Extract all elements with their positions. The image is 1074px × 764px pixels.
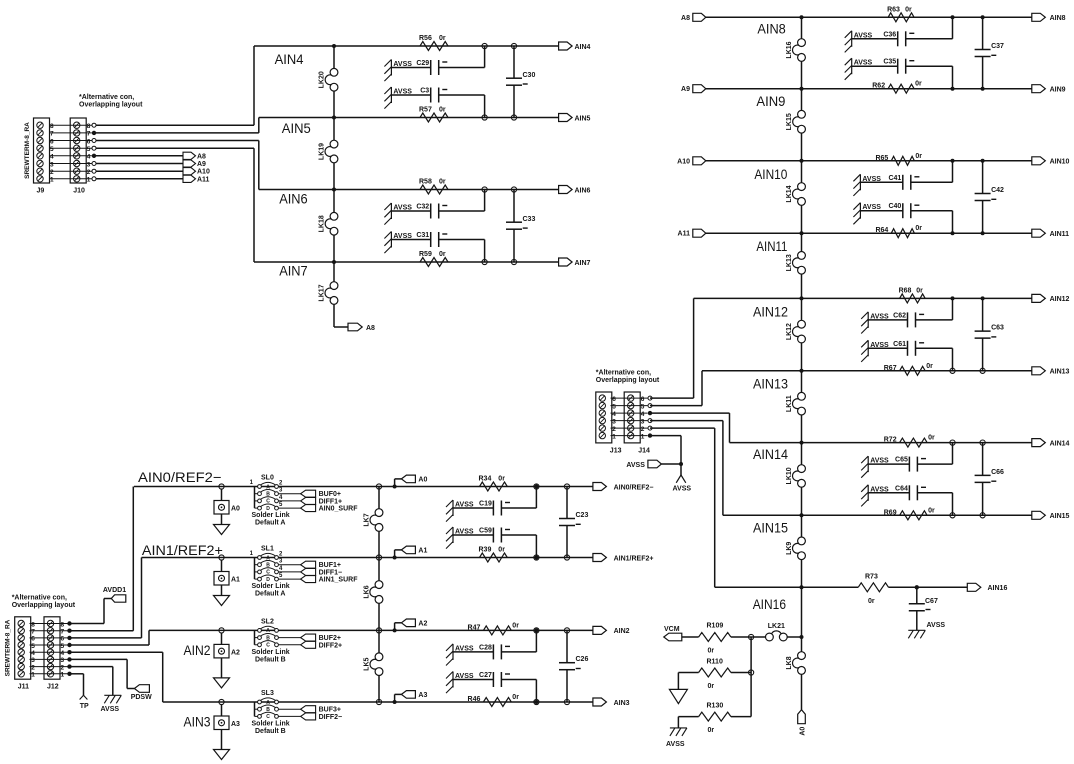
- svg-text:8: 8: [61, 621, 65, 628]
- svg-text:Default B: Default B: [255, 656, 286, 663]
- svg-text:LK6: LK6: [364, 585, 371, 598]
- svg-text:AIN1/REF2+: AIN1/REF2+: [614, 555, 654, 562]
- svg-text:AIN10: AIN10: [754, 166, 787, 182]
- svg-text:1: 1: [61, 672, 65, 679]
- svg-text:A0: A0: [418, 477, 427, 484]
- svg-text:AIN11: AIN11: [1050, 231, 1070, 238]
- svg-text:A9: A9: [197, 161, 206, 168]
- svg-text:0r: 0r: [708, 727, 715, 734]
- svg-text:A8: A8: [681, 15, 690, 22]
- svg-text:AIN15: AIN15: [753, 520, 788, 536]
- svg-text:R57: R57: [419, 107, 432, 114]
- svg-text:Solder Link: Solder Link: [252, 720, 290, 727]
- svg-text:AIN16: AIN16: [988, 585, 1008, 592]
- svg-text:6: 6: [50, 138, 54, 145]
- svg-text:0r: 0r: [439, 107, 446, 114]
- svg-text:A2: A2: [418, 621, 427, 628]
- svg-text:6: 6: [31, 636, 35, 643]
- svg-text:0r: 0r: [439, 35, 446, 42]
- svg-text:6: 6: [612, 396, 616, 403]
- svg-text:LK8: LK8: [786, 656, 793, 669]
- svg-text:DIFF2+: DIFF2+: [319, 642, 343, 649]
- svg-text:C37: C37: [991, 43, 1004, 50]
- svg-text:J14: J14: [638, 447, 650, 454]
- svg-text:0r: 0r: [498, 547, 505, 554]
- svg-text:C30: C30: [523, 72, 536, 79]
- svg-text:C32: C32: [416, 204, 429, 211]
- svg-text:DIFF1+: DIFF1+: [319, 498, 343, 505]
- svg-text:A11: A11: [678, 231, 691, 238]
- svg-text:2: 2: [641, 426, 645, 433]
- svg-text:1: 1: [641, 433, 645, 440]
- svg-text:SL3: SL3: [261, 690, 274, 697]
- svg-text:SL0: SL0: [261, 475, 274, 482]
- svg-text:R46: R46: [468, 696, 481, 703]
- svg-text:J10: J10: [73, 188, 85, 195]
- svg-text:5: 5: [87, 146, 91, 153]
- svg-text:LK12: LK12: [786, 323, 793, 340]
- svg-text:1: 1: [612, 433, 616, 440]
- svg-text:0r: 0r: [439, 251, 446, 258]
- svg-text:AIN11: AIN11: [756, 238, 787, 254]
- svg-text:A9: A9: [681, 86, 690, 93]
- svg-text:Default A: Default A: [255, 591, 285, 598]
- svg-text:C42: C42: [991, 187, 1004, 194]
- svg-text:AVDD1: AVDD1: [103, 587, 126, 594]
- svg-text:R110: R110: [707, 659, 723, 666]
- svg-text:7: 7: [31, 629, 35, 636]
- svg-text:7: 7: [61, 629, 65, 636]
- svg-text:C19: C19: [479, 501, 492, 508]
- svg-text:0r: 0r: [868, 598, 875, 605]
- svg-text:C41: C41: [888, 175, 901, 182]
- svg-text:LK19: LK19: [319, 143, 326, 160]
- svg-text:1: 1: [87, 177, 91, 184]
- svg-text:A8: A8: [197, 153, 206, 160]
- svg-text:8: 8: [50, 123, 54, 130]
- svg-text:R64: R64: [875, 227, 888, 234]
- svg-text:0r: 0r: [708, 648, 715, 655]
- svg-text:3: 3: [61, 657, 65, 664]
- svg-text:AIN4: AIN4: [275, 51, 304, 67]
- svg-text:3: 3: [641, 418, 645, 425]
- svg-text:SREWTERM-8_RA: SREWTERM-8_RA: [24, 122, 31, 179]
- svg-text:3: 3: [612, 418, 616, 425]
- svg-text:BUF0+: BUF0+: [319, 491, 341, 498]
- svg-text:0r: 0r: [928, 435, 935, 442]
- svg-text:AIN6: AIN6: [279, 191, 308, 207]
- svg-text:C61: C61: [893, 341, 906, 348]
- svg-text:C62: C62: [893, 312, 906, 319]
- svg-text:AVSS: AVSS: [673, 486, 692, 493]
- svg-text:R59: R59: [419, 251, 432, 258]
- svg-text:4: 4: [61, 650, 65, 657]
- svg-text:1: 1: [50, 177, 54, 184]
- svg-text:3: 3: [31, 657, 35, 664]
- svg-text:AIN4: AIN4: [575, 44, 591, 51]
- svg-text:Overlapping layout: Overlapping layout: [596, 377, 660, 384]
- svg-text:AIN16: AIN16: [753, 596, 786, 612]
- svg-text:*Alternative con,: *Alternative con,: [596, 370, 651, 377]
- svg-text:R56: R56: [419, 35, 432, 42]
- svg-text:R62: R62: [872, 83, 885, 90]
- svg-text:R130: R130: [707, 703, 724, 710]
- svg-text:5: 5: [61, 643, 65, 650]
- svg-text:LK14: LK14: [786, 185, 793, 202]
- svg-text:A3: A3: [418, 692, 427, 699]
- svg-text:LK5: LK5: [364, 657, 371, 670]
- svg-text:D: D: [266, 506, 270, 512]
- svg-text:LK9: LK9: [786, 542, 793, 555]
- svg-text:AIN9: AIN9: [756, 93, 785, 109]
- svg-text:0r: 0r: [512, 622, 519, 629]
- svg-text:A1: A1: [231, 577, 240, 584]
- svg-text:DIFF1−: DIFF1−: [319, 569, 343, 576]
- svg-text:A2: A2: [231, 649, 240, 656]
- svg-text:R58: R58: [419, 179, 432, 186]
- svg-text:C23: C23: [576, 512, 589, 519]
- svg-text:SL1: SL1: [261, 546, 274, 553]
- svg-text:8: 8: [31, 621, 35, 628]
- svg-text:A11: A11: [197, 176, 210, 183]
- svg-text:LK20: LK20: [319, 71, 326, 88]
- svg-text:0r: 0r: [928, 507, 935, 514]
- svg-text:AVSS: AVSS: [101, 706, 120, 713]
- svg-text:C3: C3: [420, 88, 429, 95]
- svg-text:C63: C63: [991, 325, 1004, 332]
- svg-text:4: 4: [50, 154, 54, 161]
- svg-text:AVSS: AVSS: [626, 462, 645, 469]
- svg-text:LK17: LK17: [319, 284, 326, 301]
- svg-text:Overlapping layout: Overlapping layout: [12, 602, 76, 609]
- svg-text:Solder Link: Solder Link: [252, 512, 290, 519]
- svg-text:D: D: [266, 577, 270, 583]
- svg-text:0r: 0r: [916, 287, 923, 294]
- svg-text:C59: C59: [479, 528, 492, 535]
- svg-text:AIN2: AIN2: [184, 642, 211, 658]
- svg-text:6: 6: [641, 396, 645, 403]
- svg-text:0r: 0r: [498, 476, 505, 483]
- svg-text:AIN0/REF2−: AIN0/REF2−: [138, 469, 222, 485]
- svg-text:LK21: LK21: [768, 623, 785, 630]
- svg-text:5: 5: [641, 403, 645, 410]
- svg-text:3: 3: [50, 161, 54, 168]
- svg-text:AIN5: AIN5: [575, 115, 591, 122]
- svg-text:LK16: LK16: [786, 41, 793, 58]
- svg-text:1: 1: [31, 672, 35, 679]
- svg-text:0r: 0r: [708, 683, 715, 690]
- svg-text:SL2: SL2: [261, 618, 274, 625]
- svg-text:AIN15: AIN15: [1050, 513, 1070, 520]
- svg-text:AIN9: AIN9: [1050, 87, 1066, 94]
- svg-text:Overlapping layout: Overlapping layout: [79, 102, 143, 109]
- svg-text:AIN2: AIN2: [614, 628, 630, 635]
- svg-text:AIN5: AIN5: [282, 120, 311, 136]
- svg-text:C66: C66: [991, 469, 1004, 476]
- svg-text:Solder Link: Solder Link: [252, 649, 290, 656]
- svg-text:0r: 0r: [905, 6, 912, 13]
- svg-text:AIN14: AIN14: [753, 446, 788, 462]
- svg-text:AIN0/REF2−: AIN0/REF2−: [614, 484, 654, 491]
- svg-text:LK15: LK15: [786, 113, 793, 130]
- svg-text:6: 6: [87, 138, 91, 145]
- svg-text:A0: A0: [231, 506, 240, 513]
- svg-text:AIN13: AIN13: [753, 376, 788, 392]
- svg-text:LK7: LK7: [364, 513, 371, 526]
- svg-text:3: 3: [87, 161, 91, 168]
- svg-text:0r: 0r: [915, 225, 922, 232]
- svg-text:PDSW: PDSW: [131, 694, 152, 701]
- svg-text:C36: C36: [883, 31, 896, 38]
- svg-text:5: 5: [50, 146, 54, 153]
- svg-text:R68: R68: [899, 287, 912, 294]
- svg-text:5: 5: [612, 403, 616, 410]
- svg-text:BUF2+: BUF2+: [319, 635, 341, 642]
- svg-text:Default B: Default B: [255, 728, 286, 735]
- svg-text:AIN14: AIN14: [1050, 440, 1070, 447]
- svg-text:C: C: [266, 714, 270, 720]
- svg-text:2: 2: [50, 169, 54, 176]
- svg-text:AIN10: AIN10: [1050, 159, 1070, 166]
- svg-text:LK11: LK11: [786, 395, 793, 412]
- svg-text:C31: C31: [416, 232, 429, 239]
- svg-text:R65: R65: [875, 155, 888, 162]
- svg-text:C26: C26: [576, 656, 589, 663]
- svg-text:A10: A10: [677, 158, 690, 165]
- svg-text:AIN1/REF2+: AIN1/REF2+: [142, 542, 223, 558]
- svg-text:J9: J9: [37, 188, 45, 195]
- svg-text:R73: R73: [865, 574, 878, 581]
- svg-text:0r: 0r: [915, 81, 922, 88]
- svg-text:C: C: [266, 643, 270, 649]
- svg-text:A1: A1: [418, 548, 427, 555]
- svg-text:AIN0_SURF: AIN0_SURF: [319, 506, 359, 513]
- svg-text:J13: J13: [610, 447, 622, 454]
- svg-text:0r: 0r: [915, 153, 922, 160]
- svg-text:A10: A10: [197, 169, 210, 176]
- svg-text:R67: R67: [884, 365, 897, 372]
- svg-text:SREWTERM-8_RA: SREWTERM-8_RA: [5, 619, 12, 676]
- svg-text:R69: R69: [884, 509, 897, 516]
- svg-text:4: 4: [612, 411, 616, 418]
- svg-text:C65: C65: [895, 457, 908, 464]
- svg-text:AIN12: AIN12: [1050, 296, 1070, 303]
- svg-text:6: 6: [61, 636, 65, 643]
- svg-text:2: 2: [31, 664, 35, 671]
- svg-text:2: 2: [61, 664, 65, 671]
- svg-text:R63: R63: [887, 6, 900, 13]
- svg-text:AIN3: AIN3: [184, 714, 211, 730]
- svg-text:C40: C40: [888, 203, 901, 210]
- svg-text:8: 8: [87, 123, 91, 130]
- svg-text:BUF3+: BUF3+: [319, 707, 341, 714]
- svg-text:0r: 0r: [512, 694, 519, 701]
- svg-text:2: 2: [612, 426, 616, 433]
- svg-text:0r: 0r: [439, 179, 446, 186]
- svg-text:R72: R72: [884, 437, 897, 444]
- svg-text:BUF1+: BUF1+: [319, 562, 341, 569]
- svg-text:AIN7: AIN7: [279, 263, 308, 279]
- svg-text:J12: J12: [47, 684, 59, 691]
- svg-text:R47: R47: [468, 624, 481, 631]
- svg-text:7: 7: [87, 131, 91, 138]
- svg-text:AIN13: AIN13: [1050, 369, 1070, 376]
- svg-text:C67: C67: [925, 598, 938, 605]
- svg-text:LK10: LK10: [786, 467, 793, 484]
- svg-text:Default A: Default A: [255, 520, 285, 527]
- svg-text:C35: C35: [883, 59, 896, 66]
- svg-text:*Alternative con,: *Alternative con,: [12, 595, 67, 602]
- svg-text:AIN8: AIN8: [757, 21, 786, 37]
- svg-text:2: 2: [87, 169, 91, 176]
- svg-text:*Alternative con,: *Alternative con,: [79, 94, 134, 101]
- svg-text:LK18: LK18: [319, 215, 326, 232]
- svg-text:AIN12: AIN12: [753, 304, 788, 320]
- svg-text:C33: C33: [523, 216, 536, 223]
- svg-text:R34: R34: [479, 476, 492, 483]
- svg-text:TP: TP: [80, 703, 89, 710]
- svg-text:0r: 0r: [926, 363, 933, 370]
- svg-text:J11: J11: [18, 684, 29, 691]
- svg-text:AIN7: AIN7: [575, 260, 591, 267]
- svg-text:DIFF2−: DIFF2−: [319, 714, 343, 721]
- svg-text:AIN3: AIN3: [614, 700, 630, 707]
- svg-text:5: 5: [31, 643, 35, 650]
- svg-text:AVSS: AVSS: [666, 741, 685, 748]
- svg-text:LK13: LK13: [786, 254, 793, 271]
- svg-text:4: 4: [87, 154, 91, 161]
- svg-text:7: 7: [50, 131, 54, 138]
- svg-text:AVSS: AVSS: [927, 622, 946, 629]
- svg-text:4: 4: [641, 411, 645, 418]
- svg-text:AIN6: AIN6: [575, 187, 591, 194]
- svg-text:A8: A8: [366, 325, 375, 332]
- svg-text:C28: C28: [479, 644, 492, 651]
- svg-text:C29: C29: [416, 60, 429, 67]
- svg-text:C64: C64: [895, 485, 908, 492]
- svg-text:A0: A0: [800, 727, 807, 736]
- svg-text:AIN1_SURF: AIN1_SURF: [319, 577, 359, 584]
- svg-text:4: 4: [31, 650, 35, 657]
- svg-text:C27: C27: [479, 672, 492, 679]
- svg-text:Solder Link: Solder Link: [252, 583, 290, 590]
- svg-text:R39: R39: [479, 547, 492, 554]
- svg-text:A3: A3: [231, 721, 240, 728]
- svg-text:VCM: VCM: [664, 626, 680, 633]
- svg-text:AIN8: AIN8: [1050, 15, 1066, 22]
- svg-text:R109: R109: [707, 623, 724, 630]
